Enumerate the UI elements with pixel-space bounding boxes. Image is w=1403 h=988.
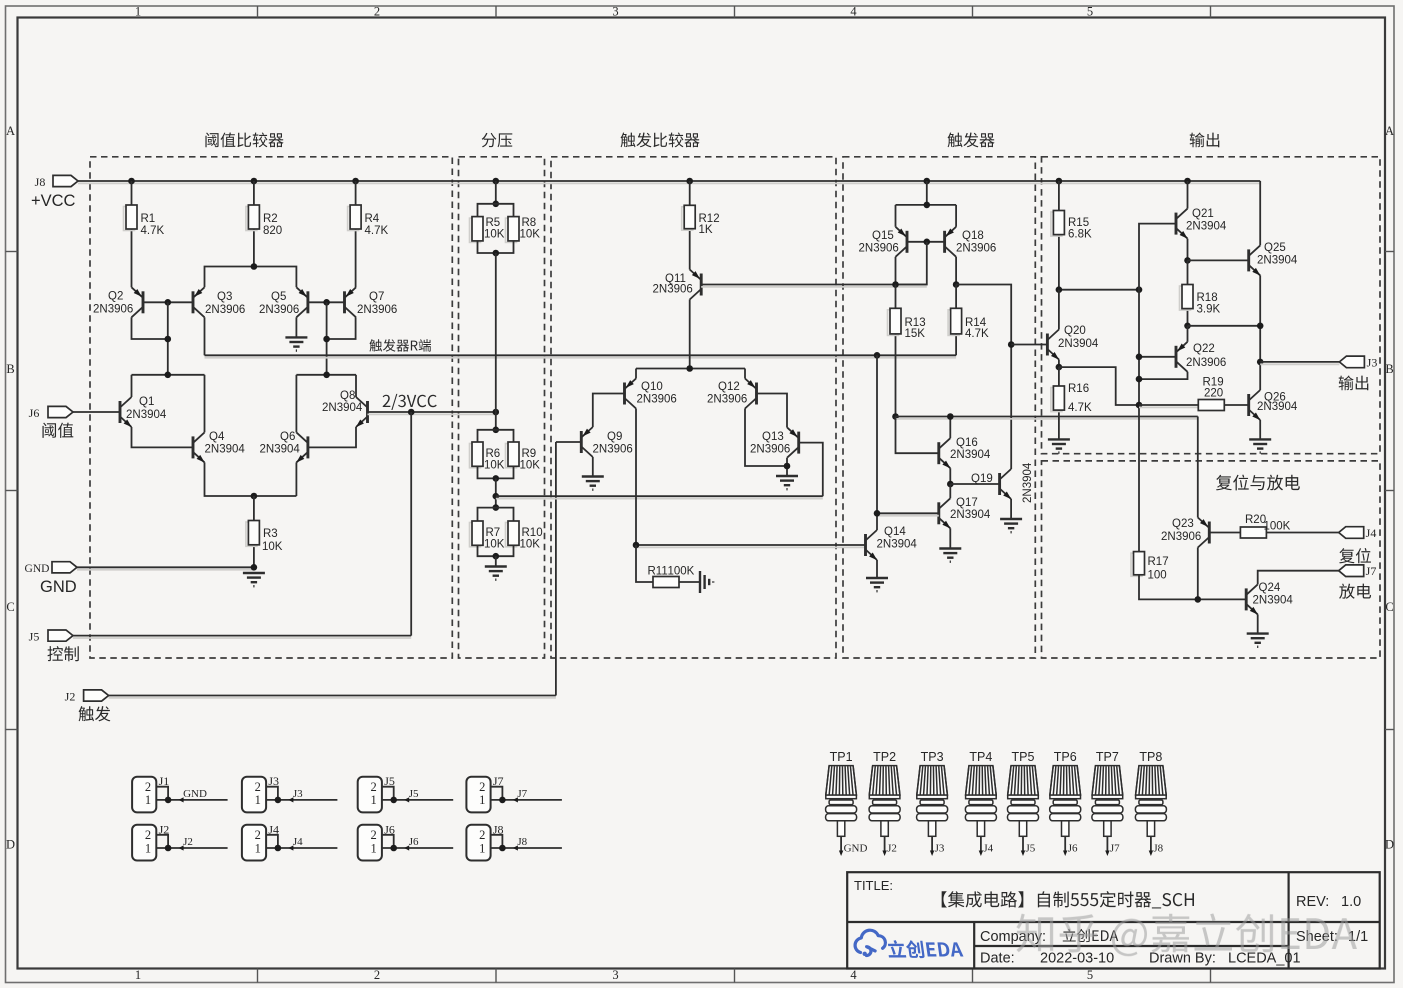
svg-text:3: 3: [612, 968, 618, 982]
svg-text:R10: R10: [522, 527, 543, 539]
svg-text:Q14: Q14: [884, 526, 906, 538]
wire R6/R9 top split: [478, 430, 514, 442]
svg-text:R3: R3: [263, 528, 278, 540]
wire trigger-R line 触发器R端: [204, 317, 206, 355]
wire J3 pin1 net J3: [266, 799, 337, 801]
title block frame: [847, 872, 1379, 968]
section box 触发器: [843, 157, 1035, 658]
svg-text:R2: R2: [263, 213, 278, 225]
wire Q14 emitter to ground: [876, 560, 878, 578]
node right 339: [323, 336, 330, 343]
svg-text:R17: R17: [1148, 556, 1169, 568]
connector J8: [466, 825, 490, 861]
wire R2 to Q3/Q5 emitters: [205, 267, 297, 288]
svg-text:B: B: [1385, 362, 1393, 376]
node rail right: [323, 372, 330, 379]
svg-text:1K: 1K: [699, 224, 713, 236]
transistor Q5 2N3906: [296, 287, 308, 317]
svg-text:Q16: Q16: [956, 437, 978, 449]
title text: [942, 891, 1194, 908]
svg-text:2N3906: 2N3906: [653, 284, 693, 296]
connector J4: [242, 825, 266, 861]
svg-text:TP1: TP1: [830, 750, 853, 764]
wire Q21 emitter to R18: [1187, 239, 1189, 261]
port J5 控制: [48, 630, 73, 641]
wire Q15 emitter: [895, 205, 897, 227]
resistor R14 leads: [955, 285, 957, 309]
wire J5 pin1 net J5: [382, 799, 453, 801]
resistor R17 leads: [1138, 551, 1140, 553]
wire Q23 base to R20: [1209, 532, 1240, 534]
transistor Q24 2N3904: [1246, 584, 1258, 614]
transistor Q2 2N3906: [132, 287, 144, 317]
svg-text:1: 1: [370, 793, 376, 807]
wire TP1 pin: [840, 836, 842, 853]
svg-text:5: 5: [1087, 968, 1093, 982]
svg-text:GND: GND: [40, 578, 77, 596]
svg-text:Q9: Q9: [607, 431, 622, 443]
resistor R12 leads: [689, 181, 691, 205]
svg-text:Q4: Q4: [209, 431, 225, 443]
wire Q4 emitter to rail: [205, 462, 297, 496]
node J7 pins: [499, 797, 506, 804]
transistor Q10 2N3906: [625, 379, 637, 409]
svg-text:2: 2: [145, 828, 151, 842]
svg-text:6.8K: 6.8K: [1068, 229, 1092, 241]
wire Q24 emitter to ground: [1257, 614, 1259, 633]
node R5/R8 top: [493, 201, 500, 208]
wire Q13 collector down: [786, 458, 788, 476]
wire Q25 emitter chain to Q26 collector: [1259, 275, 1261, 390]
transistor Q26 2N3904: [1249, 390, 1261, 420]
transistor Q18 2N3906: [945, 227, 957, 257]
svg-text:J7: J7: [1110, 843, 1120, 855]
node mirror rail: [924, 202, 931, 209]
resistor R15 leads: [1058, 181, 1060, 211]
svg-text:1: 1: [255, 841, 261, 855]
ground: [285, 337, 307, 350]
node J1 pins: [165, 797, 172, 804]
wire Q10 emitter: [635, 369, 637, 379]
node R15 bottom: [1056, 286, 1063, 293]
port GND: [52, 562, 77, 573]
node J4 pins: [275, 845, 282, 852]
svg-text:Q3: Q3: [217, 291, 232, 303]
resistor R16 leads: [1058, 367, 1060, 386]
svg-text:J8: J8: [35, 175, 46, 189]
svg-text:J2: J2: [183, 836, 193, 848]
svg-text:Q21: Q21: [1192, 208, 1214, 220]
connector J1: [132, 777, 156, 813]
svg-text:A: A: [1385, 124, 1394, 138]
svg-text:TP5: TP5: [1012, 750, 1035, 764]
svg-text:TP6: TP6: [1054, 750, 1077, 764]
wire Q18 base: [927, 241, 945, 243]
wire Q26 emitter to ground: [1259, 420, 1261, 439]
transistor Q4 2N3904: [193, 432, 205, 462]
wire J5 control line: [73, 637, 411, 639]
node left 339: [165, 336, 172, 343]
transistor Q17 2N3904: [939, 498, 951, 528]
wire Q18 collector: [955, 257, 957, 285]
svg-text:2: 2: [370, 780, 376, 794]
wire Q6 collector: [295, 375, 297, 433]
port J6 阈值: [48, 406, 73, 417]
resistor R6 10K: [470, 444, 481, 468]
svg-text:Q20: Q20: [1064, 325, 1086, 337]
port J4 复位: [1339, 527, 1364, 539]
node R18 bottom: [1184, 323, 1191, 330]
svg-text:GND: GND: [25, 563, 50, 575]
wire Q11 collector: [689, 300, 691, 369]
wire to ground: [495, 556, 497, 566]
resistor R3 leads: [253, 496, 255, 521]
svg-text:Sheet:: Sheet:: [1296, 929, 1338, 945]
node J6 pins: [390, 845, 397, 852]
wire Q1 emitter to Q4 base: [132, 427, 194, 447]
svg-text:R16: R16: [1068, 383, 1089, 395]
wire R-line down to Q14 collector: [876, 355, 878, 530]
ground: [243, 573, 265, 586]
wire Q9 base: [556, 441, 581, 443]
node rail center: [686, 365, 693, 372]
resistor R9 10K: [506, 444, 517, 468]
wire R19 to Q26 base: [1224, 404, 1248, 406]
svg-text:2N3906: 2N3906: [357, 304, 397, 316]
wire Q18 emitter: [955, 205, 957, 227]
wire Q18 collector to output driver: [956, 285, 1011, 470]
svg-text:100: 100: [1148, 570, 1167, 582]
wire Q2-Q3 base link: [143, 301, 193, 303]
svg-text:J3: J3: [1367, 356, 1378, 370]
svg-text:10K: 10K: [520, 460, 541, 472]
wire Q2 collector to node: [132, 317, 168, 339]
wire Q20 emitter to R19 node: [1059, 367, 1139, 405]
svg-text:1: 1: [255, 793, 261, 807]
svg-text:R7: R7: [486, 527, 501, 539]
svg-text:4.7K: 4.7K: [141, 225, 165, 237]
wire Q1 collector: [131, 375, 133, 397]
svg-text:3.9K: 3.9K: [1197, 304, 1221, 316]
svg-text:3: 3: [612, 5, 618, 19]
svg-text:1.0: 1.0: [1341, 894, 1361, 910]
svg-text:2N3904: 2N3904: [260, 444, 301, 456]
svg-text:J3: J3: [293, 788, 303, 800]
svg-text:Q15: Q15: [872, 230, 894, 242]
wire Q12 base to Q13 emitter: [757, 394, 788, 428]
node Q15 collector/R13: [892, 281, 899, 288]
wire Q22 collector: [1139, 372, 1188, 379]
svg-text:Q25: Q25: [1264, 242, 1286, 254]
wire J2 pin2: [156, 835, 168, 848]
svg-text:TITLE:: TITLE:: [854, 878, 893, 893]
transistor Q19 2N3904: [1000, 469, 1012, 499]
node Q22 collector: [1136, 376, 1143, 383]
resistor R15 6.8K: [1051, 212, 1062, 236]
svg-text:100K: 100K: [1264, 521, 1291, 533]
svg-text:2N3906: 2N3906: [956, 243, 996, 255]
svg-text:J5: J5: [1026, 843, 1036, 855]
wire VCC drop to mirror rail: [926, 181, 928, 205]
resistor R20 100K: [1240, 527, 1266, 538]
svg-text:10K: 10K: [484, 539, 505, 551]
connector J5: [358, 777, 382, 813]
wire J7 pin2: [491, 787, 503, 800]
svg-text:2: 2: [479, 828, 485, 842]
svg-text:J2: J2: [65, 690, 76, 704]
svg-text:2N3904: 2N3904: [1186, 221, 1227, 233]
svg-text:Q7: Q7: [369, 291, 384, 303]
svg-text:2: 2: [374, 968, 380, 982]
connector J6: [358, 825, 382, 861]
wire Q6/Q8 collector rail: [296, 374, 356, 376]
node R7/R10 top: [493, 504, 500, 511]
wire to tap: [495, 478, 497, 507]
wire Q5 collector to ground: [295, 317, 297, 337]
svg-text:1: 1: [135, 5, 141, 19]
node J8 pins: [499, 845, 506, 852]
resistor R11 100K: [653, 577, 679, 588]
svg-text:2: 2: [145, 780, 151, 794]
svg-text:15K: 15K: [905, 328, 926, 340]
resistor R2 820: [246, 207, 257, 231]
node R19 line junction: [1136, 402, 1143, 409]
svg-text:J8: J8: [1153, 843, 1163, 855]
svg-text:A: A: [6, 124, 15, 138]
svg-text:2: 2: [374, 5, 380, 19]
svg-text:2N3906: 2N3906: [859, 243, 899, 255]
resistor R13 15K: [888, 310, 899, 336]
wire R13 node line to Q23: [896, 418, 1198, 420]
wire TP6 pin: [1064, 836, 1066, 853]
ground: [582, 477, 604, 490]
resistor R3 10K: [246, 522, 257, 546]
wire right base node down to rail: [326, 302, 328, 375]
wire Q17 base: [877, 515, 939, 517]
wire mirror bases to Q15 collector: [896, 242, 927, 285]
connector J2: [132, 825, 156, 861]
svg-text:1: 1: [145, 841, 151, 855]
wire VCC to R5/R8: [495, 181, 497, 204]
svg-text:2N3906: 2N3906: [637, 394, 677, 406]
svg-text:2N3906: 2N3906: [593, 444, 633, 456]
svg-text:TP8: TP8: [1139, 750, 1162, 764]
svg-text:1: 1: [479, 793, 485, 807]
resistor R4 leads: [355, 181, 357, 205]
node base junction right: [323, 299, 330, 306]
svg-text:R18: R18: [1197, 292, 1218, 304]
wire to Q20 base: [1011, 344, 1047, 346]
svg-text:Q18: Q18: [962, 230, 984, 242]
node R18 top: [1184, 257, 1191, 264]
svg-text:2: 2: [255, 828, 261, 842]
wire TP3 pin: [931, 836, 933, 853]
node R2 bottom: [251, 263, 258, 270]
ground: [1249, 439, 1271, 452]
svg-text:2: 2: [255, 780, 261, 794]
wire R5/R8 top split: [478, 204, 514, 217]
svg-text:2N3906: 2N3906: [259, 304, 299, 316]
svg-text:Q22: Q22: [1193, 343, 1215, 355]
wire Q1/Q4 collector rail: [132, 374, 205, 376]
wire Q9 collector to ground: [592, 457, 594, 477]
svg-text:10K: 10K: [520, 539, 541, 551]
wire Q8 base / 2-3VCC line: [368, 413, 496, 415]
wire TP4 pin: [980, 836, 982, 853]
resistor R17 100: [1131, 553, 1142, 576]
transistor Q12 2N3906: [745, 379, 757, 409]
wire Q19 base: [950, 483, 999, 485]
resistor R2 leads: [253, 181, 255, 205]
svg-text:2N3906: 2N3906: [750, 444, 790, 456]
wire J2 pin1 net J2: [156, 847, 227, 849]
node R7/R10 bottom: [493, 553, 500, 560]
wire Q12 emitter: [744, 369, 746, 379]
svg-text:LCEDA_01: LCEDA_01: [1228, 951, 1301, 967]
svg-text:Date:: Date:: [980, 951, 1015, 967]
ground: [776, 476, 798, 489]
node VCC junctions: [128, 178, 135, 185]
svg-text:2N3906: 2N3906: [205, 304, 245, 316]
node R6/R9 bottom: [493, 475, 500, 482]
svg-text:2N3904: 2N3904: [322, 402, 363, 414]
wire Q10/Q12 emitter rail: [636, 368, 745, 370]
wire R18 top to Q25 base: [1188, 259, 1249, 261]
node Q18 collector/R14: [953, 281, 960, 288]
transistor Q9 2N3906: [581, 427, 593, 457]
wire J6 to Q1 base: [73, 411, 120, 413]
wire Q16 collector: [949, 417, 951, 439]
wire Q20 collector: [1058, 290, 1060, 330]
wire J1 pin2: [156, 787, 168, 800]
wire TP7 pin: [1106, 836, 1108, 853]
svg-text:J7: J7: [1366, 564, 1377, 578]
transistor Q6 2N3904: [296, 432, 308, 462]
svg-text:R15: R15: [1068, 217, 1089, 229]
svg-text:2N3906: 2N3906: [93, 304, 133, 316]
svg-text:4: 4: [850, 968, 857, 982]
transistor Q15 2N3906: [896, 227, 908, 257]
section box 分压: [459, 157, 545, 658]
node R11 tap: [633, 542, 640, 549]
svg-text:2N3904: 2N3904: [1257, 255, 1298, 267]
node J3 pins: [275, 797, 282, 804]
svg-text:J5: J5: [409, 788, 419, 800]
resistor R8 10K: [506, 218, 517, 242]
svg-text:B: B: [6, 362, 14, 376]
wire Q12 collector down: [745, 409, 787, 467]
svg-text:GND: GND: [183, 788, 207, 800]
wire R5/R8 bottom join: [478, 241, 514, 253]
wire J6 pin1 net J6: [382, 847, 453, 849]
section box 触发比较器: [551, 157, 836, 658]
node R13 bottom: [892, 413, 899, 420]
port J7 放电: [1339, 565, 1364, 577]
svg-text:J3: J3: [935, 843, 945, 855]
svg-text:J4: J4: [983, 843, 993, 855]
svg-text:Q10: Q10: [641, 381, 663, 393]
resistor R14 4.7K: [948, 310, 959, 336]
transistor Q16 2N3904: [939, 438, 951, 468]
wire R11 drop: [636, 545, 653, 582]
node Q12/Q13 collectors: [784, 463, 791, 470]
svg-text:2N3904: 2N3904: [1257, 401, 1298, 413]
wire R15 bottom link: [1059, 289, 1139, 291]
svg-text:Q12: Q12: [718, 381, 740, 393]
port J8 +VCC: [53, 175, 78, 186]
svg-text:4: 4: [850, 5, 857, 19]
svg-text:10K: 10K: [262, 541, 283, 553]
wire J7 pin1 net J7: [491, 799, 562, 801]
resistor R5 10K: [470, 218, 481, 242]
resistor R1 leads: [131, 181, 133, 205]
resistor R10 10K: [506, 523, 517, 547]
wire VCC rail: [78, 182, 1260, 184]
node R3 top: [251, 493, 258, 500]
wire Q22 base: [1139, 356, 1176, 358]
wire J3 pin2: [266, 787, 278, 800]
transistor Q8 2N3904: [356, 397, 368, 427]
node R6/R9 top: [493, 427, 500, 434]
svg-text:2N3904: 2N3904: [1253, 595, 1294, 607]
node J5 pins: [390, 797, 397, 804]
wire J6 pin2: [382, 835, 394, 848]
ground: [700, 571, 713, 593]
svg-text:4.7K: 4.7K: [1068, 402, 1092, 414]
wire Q21 collector: [1187, 181, 1189, 209]
node output: [1257, 359, 1264, 366]
wire J4 pin2: [266, 835, 278, 848]
node at Q25/Q26 column: [1257, 323, 1264, 330]
wire 1/3VCC to Q13 base: [496, 498, 823, 500]
wire TP8 pin: [1150, 836, 1152, 853]
svg-text:5: 5: [1087, 5, 1093, 19]
node R-line to Q16 branch: [874, 352, 881, 359]
wire R19 line: [1139, 406, 1198, 408]
svg-text:4.7K: 4.7K: [365, 225, 389, 237]
node 1/3VCC tap: [493, 493, 500, 500]
wire Q14 base line: [636, 546, 866, 548]
svg-text:J2: J2: [887, 843, 897, 855]
ground: [1000, 519, 1022, 532]
wire R20 to J4: [1266, 532, 1338, 534]
svg-text:R6: R6: [486, 448, 501, 460]
wire R17 bottom to Q24 base: [1139, 575, 1246, 600]
wire Q11 base line to mirror: [701, 286, 927, 288]
wire output to J3: [1260, 363, 1339, 365]
svg-text:J4: J4: [1366, 526, 1377, 540]
wire Q22 emitter: [1187, 326, 1189, 342]
svg-text:J6: J6: [409, 836, 419, 848]
svg-text:D: D: [1385, 838, 1394, 852]
svg-text:1: 1: [370, 841, 376, 855]
ground: [939, 549, 961, 562]
wire Q13 base to 1/3VCC riser: [799, 443, 823, 497]
svg-text:TP4: TP4: [969, 750, 992, 764]
svg-text:2N3906: 2N3906: [1161, 531, 1201, 543]
svg-text:220: 220: [1204, 388, 1223, 400]
svg-text:2N3904: 2N3904: [1058, 338, 1099, 350]
transistor Q3 2N3906: [193, 287, 205, 317]
svg-text:J6: J6: [1068, 843, 1078, 855]
svg-text:J8: J8: [517, 836, 527, 848]
svg-text:J4: J4: [293, 836, 303, 848]
wire TP2 pin: [884, 836, 886, 853]
transistor Q23 2N3906: [1198, 518, 1210, 548]
node Q22 base: [1136, 354, 1143, 361]
svg-text:R8: R8: [522, 217, 537, 229]
wire Q17 emitter to ground: [949, 528, 951, 548]
